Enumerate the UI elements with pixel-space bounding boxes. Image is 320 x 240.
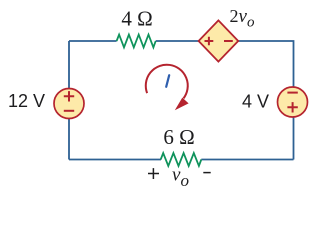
plus sign inside diamond [205, 37, 214, 46]
minus sign inside 4V source [287, 92, 297, 94]
wire left vertical lower [68, 118, 70, 159]
svg-text:4 V: 4 V [242, 92, 269, 112]
wire top-right segment [238, 41, 293, 87]
plus sign inside 4V source [287, 102, 297, 112]
label I [166, 75, 169, 87]
svg-text:12 V: 12 V [8, 91, 45, 111]
wire top-middle segment (between 4ohm resistor and dependent source) [156, 40, 199, 42]
wire bottom-right segment [201, 159, 293, 161]
minus sign inside 12V source [64, 110, 74, 112]
voltage source V2 4V (circle) [278, 87, 308, 117]
resistor 4 ohm (zigzag) [117, 35, 156, 48]
svg-text:6 Ω: 6 Ω [163, 125, 194, 149]
wire right vertical lower [293, 117, 295, 160]
minus sign inside diamond [224, 40, 233, 42]
plus polarity label for vo [148, 168, 159, 179]
dependent source U1 (diamond, 2vo) [199, 20, 239, 61]
wire left vertical upper [68, 41, 70, 89]
svg-text:4 Ω: 4 Ω [121, 7, 152, 31]
mesh current I arc [146, 65, 188, 99]
mesh current arrowhead [175, 98, 189, 111]
wire top-left segment [69, 40, 117, 42]
voltage source V1 12V (circle) [54, 89, 84, 119]
plus sign inside 12V source [64, 91, 74, 101]
minus polarity label for vo [203, 172, 210, 174]
resistor 6 ohm (zigzag) [161, 153, 202, 166]
wire bottom-left segment [69, 159, 161, 161]
